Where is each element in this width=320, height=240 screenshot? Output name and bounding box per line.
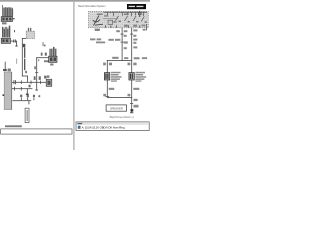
speaker B text right bbox=[135, 72, 145, 74]
label 4 near corner bbox=[25, 71, 27, 73]
label under C3 bbox=[50, 64, 53, 66]
U1 pin labels bottom bbox=[95, 29, 100, 31]
tick on W4 a bbox=[20, 81, 23, 84]
W6 tick up 1 with label bbox=[20, 97, 23, 100]
connector label row C250 left of W10 bbox=[90, 38, 95, 40]
tick below W3 corner bbox=[37, 59, 40, 61]
fuse F1 under black label inside U1 bbox=[138, 11, 141, 14]
wire stub down with end connector bbox=[15, 41, 18, 46]
U1 interior switch contacts bbox=[116, 16, 145, 22]
W11 labels near junction level bbox=[128, 63, 131, 66]
U1 interior bus drops bbox=[107, 13, 144, 17]
toolbar header strip bbox=[76, 122, 148, 125]
bus wire W4 bbox=[12, 81, 46, 84]
wire label blob at corner bbox=[23, 44, 26, 47]
module M1 right edge bbox=[10, 72, 13, 110]
W10 labels right column bbox=[124, 30, 128, 32]
node B pin-label underlay bbox=[3, 27, 11, 37]
W14 labels below J2 bbox=[134, 99, 138, 101]
pin-label underlay above C3 bbox=[50, 48, 56, 55]
wire W12 left branch down to speaker A bbox=[106, 60, 109, 73]
wire from C2 to stub bbox=[11, 40, 17, 43]
W14 pin label left bbox=[128, 94, 131, 97]
small label right of stub bbox=[42, 42, 45, 46]
wire from B1 left edge going left then down bbox=[22, 37, 26, 40]
wire W3 horizontal to connector C3 bbox=[36, 56, 49, 59]
U1 interior labels bbox=[97, 14, 103, 16]
label above C4 bbox=[44, 76, 46, 79]
label text above hatched box B1 bbox=[28, 28, 29, 31]
W11 labels right column bbox=[133, 29, 137, 31]
W14 crossing tick bbox=[130, 102, 133, 105]
wire corner into bus from B1 wire bbox=[22, 75, 28, 78]
svg-text:A: 15.0A 15.2V OBD-II OK Horn: A: 15.0A 15.2V OBD-II OK Horn Ring bbox=[82, 126, 125, 130]
wire W3 vertical drop bbox=[35, 57, 38, 90]
page divider bbox=[73, 2, 74, 150]
module M1 pin tick left bbox=[3, 94, 5, 96]
top window bar bbox=[0, 0, 150, 2]
label under C1 bbox=[2, 22, 7, 24]
tick on W4 b bbox=[39, 81, 42, 84]
svg-text:SPEAKER: SPEAKER bbox=[110, 107, 123, 111]
faint stub right of S1 bbox=[15, 59, 18, 64]
tick on W4 c bbox=[30, 81, 33, 84]
speaker A box bbox=[104, 73, 109, 80]
inline connector on W4 bbox=[13, 80, 16, 84]
labels above W3 bbox=[41, 53, 43, 56]
copyright text line bbox=[5, 125, 22, 127]
U1 interior bottom-right smudge bbox=[141, 25, 145, 27]
hot-at-all-times black label bbox=[127, 4, 146, 9]
label under U1 left of W10 bbox=[116, 30, 120, 32]
connector C1 box bbox=[1, 17, 12, 22]
U1 interior contact blobs bbox=[119, 21, 147, 23]
left page footer rectangle bbox=[1, 129, 72, 134]
W6 tick up 2 with label bbox=[26, 97, 29, 100]
speaker A text right bbox=[111, 72, 121, 74]
node A pin-label text block above connector C1 bbox=[2, 5, 13, 16]
ground G1 blob on W14 bbox=[131, 109, 134, 112]
inline connector on C2 wire bbox=[12, 39, 15, 42]
speaker box SPEAKER bbox=[106, 105, 126, 111]
node A pin-label underlay bbox=[3, 7, 13, 16]
W13 pin label left bbox=[103, 94, 106, 97]
page background bbox=[0, 0, 150, 150]
U1 interior top bus wire bbox=[104, 11, 148, 14]
W14 end tick bbox=[130, 111, 133, 114]
U1 interior dashed link bbox=[103, 17, 118, 20]
wire W11 from U1 down to speaker B bbox=[130, 28, 133, 73]
U1 interior sub box bbox=[108, 20, 113, 24]
text cluster right of C4 label bbox=[47, 75, 50, 77]
tick crossing on W3 vertical bbox=[35, 71, 38, 74]
hatched relay box B1 bbox=[26, 31, 34, 38]
connector symbol right of node B block bbox=[14, 30, 15, 32]
bus wire W6 bbox=[12, 99, 31, 102]
tick below U1 right with label bbox=[145, 28, 148, 30]
module M1 gray band bbox=[4, 72, 12, 110]
svg-text:Bright/Green/Red (+): Bright/Green/Red (+) bbox=[110, 115, 134, 119]
W13 tick bbox=[105, 95, 109, 98]
wire W13 speaker A down to J2 bbox=[106, 80, 109, 98]
labels beside W3 vertical bbox=[34, 66, 36, 69]
label above W5 drop bbox=[29, 85, 31, 88]
junction wire J2 horizontal bbox=[107, 96, 132, 99]
U1 interior switch squiggle bbox=[93, 16, 103, 26]
small label far right of W6 bbox=[39, 95, 41, 97]
W10 crossing ticks bbox=[121, 33, 124, 36]
wire label column (vertical text) bbox=[24, 47, 25, 57]
U1 interior bottom pin ticks bbox=[105, 24, 147, 28]
bus wire W5 bbox=[12, 87, 32, 90]
right footer toolbar bbox=[76, 122, 149, 131]
speaker B box bbox=[129, 73, 134, 80]
connector box C4 at W4 end bbox=[46, 79, 52, 86]
instrument cluster hatched box U1 bbox=[89, 12, 149, 28]
splice symbol S1 bottom left bbox=[4, 62, 7, 70]
svg-text:Meet Information System: Meet Information System bbox=[78, 4, 106, 8]
W12 labels bbox=[103, 63, 106, 66]
W3 end tick bbox=[35, 89, 38, 92]
W6 tick down bbox=[28, 101, 31, 104]
wire W10 from U1 down to junction J1 bbox=[121, 28, 124, 61]
node B pin-label text block above connector C2 bbox=[2, 26, 10, 38]
W11 crossing tick bbox=[130, 33, 133, 36]
toolbar icon bbox=[78, 126, 81, 129]
ticks on W5 bbox=[13, 87, 16, 91]
W13 color label bbox=[109, 88, 115, 90]
junction wire J1 horizontal bbox=[107, 59, 132, 62]
drop from W5 with end splice bbox=[26, 88, 29, 93]
connector C3 box bbox=[49, 56, 57, 62]
text row right of corner area bbox=[44, 60, 53, 62]
pin-label text block above connector C3 bbox=[49, 47, 56, 56]
pin tick right of C1 bbox=[13, 18, 15, 19]
W14 color label bbox=[133, 88, 139, 90]
isolated tick with label right of W6 bbox=[33, 97, 36, 100]
connector C2 box bbox=[1, 38, 10, 43]
vertical label box V1 bbox=[25, 108, 29, 122]
wire W14 speaker B down bbox=[130, 80, 133, 113]
J1 labels above bbox=[112, 57, 118, 59]
